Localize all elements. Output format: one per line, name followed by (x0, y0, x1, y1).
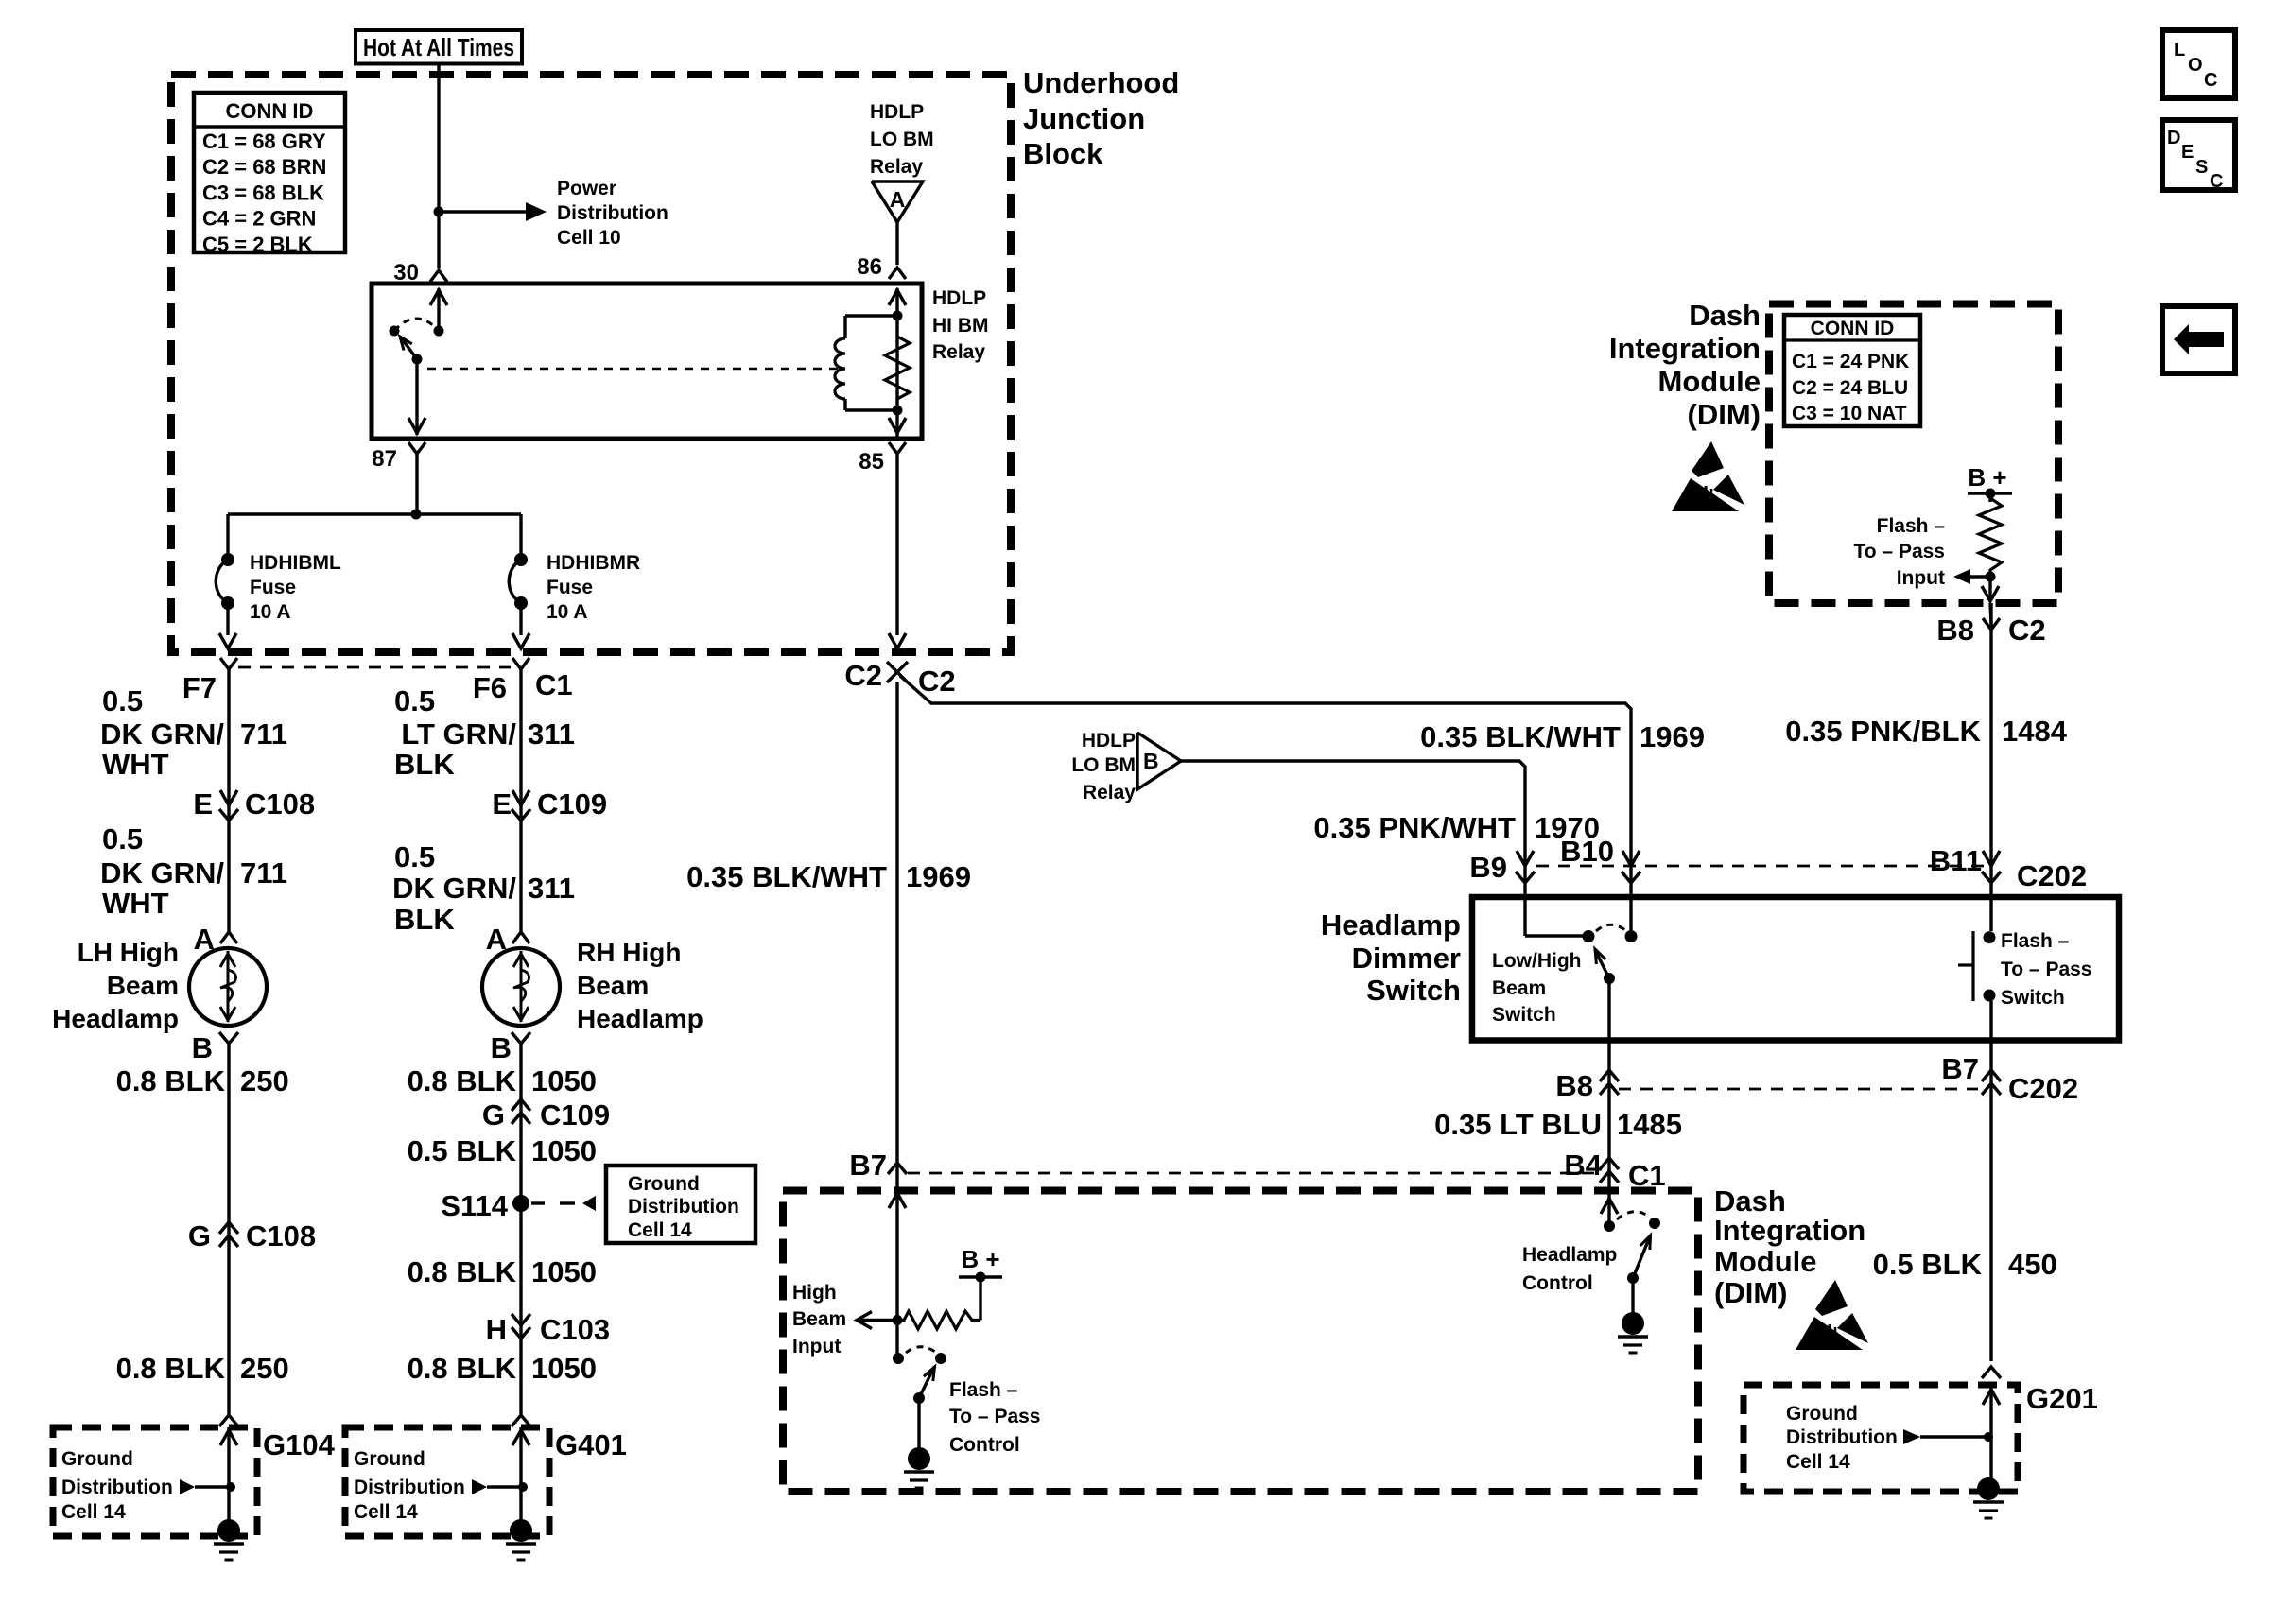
svg-text:Distribution: Distribution (354, 1477, 465, 1498)
svg-text:H: H (486, 1313, 507, 1346)
svg-text:Input: Input (792, 1336, 841, 1357)
svg-text:1969: 1969 (1640, 720, 1705, 753)
svg-text:C202: C202 (2017, 859, 2087, 892)
svg-text:C202: C202 (2008, 1072, 2078, 1105)
svg-text:CONN ID: CONN ID (1811, 318, 1895, 339)
svg-text:B: B (192, 1031, 213, 1064)
svg-text:Distribution: Distribution (61, 1477, 173, 1498)
svg-text:Power: Power (557, 178, 616, 199)
svg-text:0.35 PNK/WHT: 0.35 PNK/WHT (1313, 811, 1516, 844)
svg-text:C103: C103 (540, 1313, 610, 1346)
svg-text:Low/High: Low/High (1492, 950, 1581, 972)
svg-text:Flash –: Flash – (949, 1379, 1018, 1401)
svg-text:87: 87 (372, 446, 397, 472)
svg-text:450: 450 (2008, 1248, 2057, 1281)
svg-text:Distribution: Distribution (557, 202, 668, 224)
svg-text:HDLP: HDLP (1082, 730, 1136, 752)
svg-text:Distribution: Distribution (628, 1196, 739, 1218)
svg-text:C108: C108 (245, 787, 315, 821)
svg-text:Module: Module (1658, 365, 1761, 398)
svg-text:Block: Block (1023, 137, 1103, 170)
svg-text:C1 = 24 PNK: C1 = 24 PNK (1792, 351, 1909, 372)
svg-text:E: E (193, 787, 213, 821)
svg-text:Integration: Integration (1609, 332, 1761, 365)
svg-text:C109: C109 (540, 1098, 610, 1132)
svg-text:Fuse: Fuse (547, 577, 593, 598)
svg-text:To – Pass: To – Pass (2001, 959, 2092, 980)
svg-text:250: 250 (240, 1352, 289, 1385)
svg-text:C108: C108 (246, 1219, 316, 1253)
svg-text:Integration: Integration (1714, 1214, 1865, 1247)
svg-text:Ground: Ground (354, 1448, 425, 1470)
svg-text:Switch: Switch (1492, 1004, 1556, 1026)
svg-text:0.35 LT BLU: 0.35 LT BLU (1434, 1108, 1602, 1141)
svg-text:Dash: Dash (1689, 299, 1761, 332)
svg-text:1050: 1050 (531, 1064, 597, 1097)
svg-text:WHT: WHT (102, 748, 169, 781)
svg-text:1485: 1485 (1617, 1108, 1682, 1141)
svg-text:Ground: Ground (61, 1448, 133, 1470)
svg-text:DK GRN/: DK GRN/ (100, 717, 224, 751)
svg-text:0.8 BLK: 0.8 BLK (408, 1064, 517, 1097)
svg-text:1050: 1050 (531, 1134, 597, 1167)
svg-text:Distribution: Distribution (1786, 1426, 1898, 1448)
svg-text:1970: 1970 (1535, 811, 1600, 844)
svg-text:LH High: LH High (78, 938, 179, 967)
svg-text:Relay: Relay (1083, 782, 1136, 803)
svg-text:A: A (890, 187, 906, 212)
svg-text:85: 85 (859, 449, 884, 475)
svg-text:B: B (491, 1031, 512, 1064)
svg-text:DK GRN/: DK GRN/ (392, 872, 516, 905)
svg-text:86: 86 (857, 254, 882, 280)
svg-text:HDLP: HDLP (932, 287, 986, 309)
svg-text:0.5: 0.5 (102, 684, 143, 717)
svg-text:To – Pass: To – Pass (1854, 541, 1946, 562)
svg-text:B7: B7 (1941, 1052, 1979, 1085)
svg-text:C2 = 68 BRN: C2 = 68 BRN (202, 155, 326, 179)
svg-text:G104: G104 (263, 1428, 336, 1461)
svg-text:BLK: BLK (394, 748, 455, 781)
svg-text:1050: 1050 (531, 1255, 597, 1288)
svg-text:Module: Module (1714, 1245, 1817, 1278)
svg-text:Cell 14: Cell 14 (1786, 1451, 1850, 1473)
svg-text:E: E (492, 787, 512, 821)
svg-text:C2 = 24 BLU: C2 = 24 BLU (1792, 377, 1908, 399)
svg-text:Dash: Dash (1714, 1184, 1786, 1218)
svg-text:Control: Control (1522, 1272, 1593, 1294)
svg-text:Relay: Relay (870, 156, 923, 178)
svg-text:LT GRN/: LT GRN/ (401, 717, 516, 751)
svg-text:Beam: Beam (1492, 977, 1546, 999)
svg-text:C1 = 68 GRY: C1 = 68 GRY (202, 130, 326, 153)
svg-text:Ground: Ground (628, 1173, 700, 1195)
svg-text:C5 = 2 BLK: C5 = 2 BLK (202, 233, 313, 256)
svg-text:G201: G201 (2026, 1382, 2098, 1415)
svg-text:WHT: WHT (102, 887, 169, 920)
svg-text:Cell 14: Cell 14 (354, 1501, 418, 1523)
svg-text:1050: 1050 (531, 1352, 597, 1385)
svg-text:C3 = 68 BLK: C3 = 68 BLK (202, 181, 324, 204)
svg-text:LO BM: LO BM (870, 129, 934, 150)
svg-text:B +: B + (1968, 463, 2006, 492)
svg-text:Beam: Beam (577, 971, 649, 1000)
svg-text:0.8 BLK: 0.8 BLK (116, 1064, 226, 1097)
svg-text:711: 711 (240, 856, 287, 890)
svg-text:C1: C1 (535, 668, 573, 701)
svg-text:Fuse: Fuse (250, 577, 296, 598)
svg-text:Cell 14: Cell 14 (628, 1219, 692, 1241)
svg-text:C4 = 2 GRN: C4 = 2 GRN (202, 207, 316, 231)
svg-text:0.5: 0.5 (394, 840, 435, 873)
svg-text:1484: 1484 (2002, 715, 2068, 748)
svg-text:0.8 BLK: 0.8 BLK (408, 1352, 517, 1385)
svg-text:B4: B4 (1564, 1149, 1602, 1182)
svg-text:0.35 BLK/WHT: 0.35 BLK/WHT (1420, 720, 1621, 753)
svg-text:E: E (2181, 142, 2194, 163)
svg-text:Headlamp: Headlamp (52, 1004, 179, 1033)
svg-text:Flash –: Flash – (1877, 515, 1946, 537)
svg-text:(DIM): (DIM) (1688, 398, 1761, 431)
svg-text:1969: 1969 (906, 860, 971, 893)
svg-text:Beam: Beam (792, 1308, 846, 1330)
svg-text:B11: B11 (1930, 844, 1982, 877)
svg-text:Hot At All Times: Hot At All Times (363, 33, 514, 61)
svg-text:B8: B8 (1555, 1069, 1593, 1102)
svg-text:HDHIBMR: HDHIBMR (547, 552, 640, 574)
svg-text:G: G (188, 1219, 211, 1253)
svg-text:0.5 BLK: 0.5 BLK (1873, 1248, 1983, 1281)
svg-text:C2: C2 (918, 665, 956, 698)
svg-text:C: C (2210, 171, 2223, 192)
svg-text:B9: B9 (1469, 851, 1507, 884)
svg-text:BLK: BLK (394, 903, 455, 936)
svg-text:S114: S114 (441, 1189, 508, 1222)
svg-text:C2: C2 (844, 659, 882, 692)
svg-text:Flash –: Flash – (2001, 930, 2070, 952)
svg-text:B8: B8 (1936, 613, 1974, 647)
svg-text:Junction: Junction (1023, 102, 1145, 135)
svg-text:(DIM): (DIM) (1714, 1276, 1787, 1309)
svg-text:To – Pass: To – Pass (949, 1406, 1041, 1427)
svg-text:F6: F6 (473, 671, 507, 704)
svg-text:311: 311 (528, 717, 575, 751)
svg-text:Headlamp: Headlamp (1321, 908, 1461, 942)
svg-text:Control: Control (949, 1434, 1020, 1456)
svg-text:0.5: 0.5 (102, 822, 143, 855)
svg-text:Cell 10: Cell 10 (557, 227, 621, 249)
svg-text:Beam: Beam (107, 971, 179, 1000)
svg-text:0.5 BLK: 0.5 BLK (408, 1134, 517, 1167)
svg-text:Switch: Switch (1366, 974, 1461, 1007)
svg-text:Cell 14: Cell 14 (61, 1501, 126, 1523)
svg-text:G401: G401 (555, 1428, 627, 1461)
svg-text:Switch: Switch (2001, 987, 2065, 1009)
svg-text:HI BM: HI BM (932, 315, 989, 337)
svg-text:D: D (2167, 128, 2180, 148)
svg-text:B7: B7 (849, 1149, 887, 1182)
svg-text:RH High: RH High (577, 938, 681, 967)
svg-text:High: High (792, 1282, 837, 1304)
svg-text:0.8 BLK: 0.8 BLK (116, 1352, 226, 1385)
svg-text:0.35 PNK/BLK: 0.35 PNK/BLK (1785, 715, 1981, 748)
svg-text:Underhood: Underhood (1023, 66, 1179, 99)
svg-text:0.5: 0.5 (394, 684, 435, 717)
svg-text:O: O (2188, 55, 2203, 76)
svg-text:Headlamp: Headlamp (577, 1004, 703, 1033)
svg-text:C: C (2204, 70, 2217, 91)
svg-text:0.8 BLK: 0.8 BLK (408, 1255, 517, 1288)
svg-text:B +: B + (961, 1245, 999, 1273)
svg-text:Dimmer: Dimmer (1352, 942, 1461, 975)
svg-text:711: 711 (240, 717, 287, 751)
svg-text:F7: F7 (182, 671, 217, 704)
svg-text:LO BM: LO BM (1071, 754, 1136, 776)
svg-text:DK GRN/: DK GRN/ (100, 856, 224, 890)
svg-text:311: 311 (528, 872, 575, 905)
svg-text:10 A: 10 A (547, 601, 588, 623)
svg-text:Headlamp: Headlamp (1522, 1244, 1617, 1266)
svg-text:Relay: Relay (932, 341, 985, 363)
svg-text:HDHIBML: HDHIBML (250, 552, 341, 574)
svg-text:C109: C109 (537, 787, 607, 821)
svg-text:HDLP: HDLP (870, 101, 924, 123)
svg-text:250: 250 (240, 1064, 289, 1097)
svg-text:S: S (2195, 157, 2208, 178)
svg-text:10 A: 10 A (250, 601, 291, 623)
svg-text:L: L (2174, 40, 2185, 60)
svg-text:Input: Input (1897, 567, 1945, 589)
svg-text:C3 = 10 NAT: C3 = 10 NAT (1792, 403, 1907, 424)
svg-text:CONN ID: CONN ID (226, 99, 314, 123)
svg-text:G: G (482, 1098, 505, 1132)
svg-text:B: B (1143, 749, 1159, 773)
svg-text:0.35 BLK/WHT: 0.35 BLK/WHT (686, 860, 887, 893)
svg-text:C2: C2 (2008, 613, 2046, 647)
svg-text:Ground: Ground (1786, 1403, 1858, 1425)
